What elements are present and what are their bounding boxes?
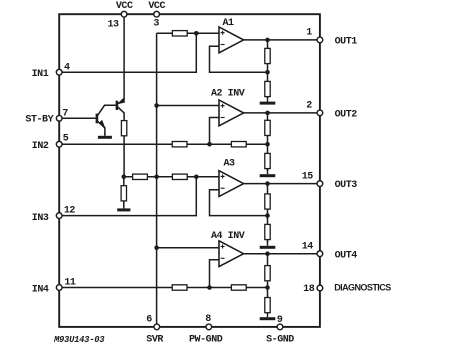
IC outline box: [59, 14, 320, 327]
op-amp A3 triangle: [219, 171, 244, 197]
svg-text:1: 1: [306, 28, 312, 39]
wire Q1 emitter: [98, 121, 105, 135]
resistor OUT1 divider lower: [265, 81, 270, 96]
transistor Q1 (NPN stand-by) base bar: [96, 114, 99, 124]
resistor OUT4 divider lower: [265, 298, 270, 313]
pin 11 IN4 terminal: [56, 285, 62, 291]
pin 6 SVR terminal: [154, 324, 160, 330]
svg-text:13: 13: [107, 20, 119, 31]
wire IN3 to A3 input junction: [62, 177, 196, 216]
ground OUT1 divider: [260, 97, 276, 104]
wire Q2 collector down to bias node: [118, 107, 124, 177]
op-amp A2 minus input mark: [221, 117, 225, 119]
svg-text:OUT1: OUT1: [335, 37, 358, 48]
node A3 input junction: [194, 175, 199, 180]
wire ST-BY to Q1 base: [62, 117, 95, 119]
wire SVR bias rail (pin 3 / pin 6 vertical): [156, 33, 158, 324]
wire A4 non-inverting bias line: [157, 247, 219, 249]
wire A4 inverting input down to IN4 line: [210, 260, 220, 288]
node bias junction: [122, 175, 127, 180]
resistor bias node to SVR rail: [133, 174, 148, 179]
svg-text:PW-GND: PW-GND: [189, 335, 223, 346]
svg-text:12: 12: [64, 206, 76, 217]
wire OUT3 from A3 to pin 15: [244, 183, 317, 185]
svg-text:OUT2: OUT2: [335, 110, 358, 121]
svg-text:VCC: VCC: [148, 1, 165, 12]
node A2 inverting input junction: [207, 142, 212, 147]
pin 3 VCC terminal: [154, 11, 160, 17]
node OUT4 divider tap: [265, 251, 270, 256]
svg-text:A3: A3: [223, 159, 235, 170]
wire A1 feedback from inverting input to divider: [210, 46, 268, 72]
op-amp A2 plus input mark: [221, 104, 225, 108]
op-amp A1 triangle: [219, 27, 244, 53]
op-amp A1 minus input mark: [221, 44, 225, 46]
node A1 feedback tap: [265, 70, 270, 75]
svg-text:2: 2: [306, 101, 312, 112]
svg-text:SVR: SVR: [146, 335, 163, 346]
resistor A3 input bias: [172, 174, 187, 179]
svg-text:7: 7: [62, 108, 68, 119]
transistor Q1 emitter arrow (NPN): [100, 121, 105, 129]
pin 14 OUT4 terminal: [317, 251, 323, 257]
wire OUT1 feedback divider chain: [267, 40, 269, 99]
ground OUT4 divider: [260, 313, 276, 319]
svg-text:OUT3: OUT3: [335, 180, 358, 191]
wire bias node to rail: [124, 176, 157, 178]
svg-text:3: 3: [153, 19, 159, 30]
wire Q2 emitter from VCC: [118, 101, 124, 104]
node A4 feedback tap: [265, 285, 270, 290]
ground OUT3 divider: [260, 240, 276, 248]
pin 12 IN3 terminal: [56, 213, 62, 219]
op-amp A2 triangle: [219, 100, 244, 126]
ground OUT2 divider: [260, 169, 276, 176]
wire VCC pin13 rail down to Q2 emitter: [123, 17, 125, 100]
svg-text:5: 5: [63, 133, 69, 144]
wire A3 feedback from inverting input to divider: [210, 190, 268, 216]
node A2 feedback tap: [265, 142, 270, 147]
pin 13 VCC terminal: [121, 11, 127, 17]
node rail to A4 bias: [154, 245, 159, 250]
node rail to A3 bias: [154, 175, 159, 180]
node A4 inverting input junction: [207, 285, 212, 290]
op-amp A3 minus input mark: [221, 187, 225, 189]
svg-text:4: 4: [64, 62, 70, 73]
pin 8 PW-GND terminal: [206, 324, 212, 330]
pin 4 IN1 terminal: [56, 69, 62, 75]
svg-text:14: 14: [302, 242, 314, 253]
transistor Q2 (PNP stand-by switch) base bar: [116, 101, 119, 110]
ground Q1 emitter: [98, 133, 112, 137]
wire IN2 line through input and feedback resistors: [62, 143, 267, 145]
resistor OUT2 divider lower: [265, 153, 270, 168]
op-amp A4 minus input mark: [221, 257, 225, 259]
resistor Q2 collector: [121, 121, 126, 136]
svg-text:IN3: IN3: [32, 213, 49, 224]
resistor A4 feedback: [231, 285, 246, 290]
wire OUT3 feedback divider chain: [267, 184, 269, 243]
svg-text:A2 INV: A2 INV: [211, 88, 245, 99]
wire IN4 line through input and feedback resistors: [62, 287, 267, 289]
pin 15 OUT3 terminal: [317, 181, 323, 187]
node A3 feedback tap: [265, 213, 270, 218]
svg-text:8: 8: [205, 314, 211, 325]
op-amp A1 plus input mark: [221, 31, 225, 35]
resistor IN2 input: [172, 142, 187, 147]
resistor OUT3 divider upper: [265, 194, 270, 209]
svg-text:18: 18: [303, 284, 315, 295]
svg-text:OUT4: OUT4: [335, 250, 358, 261]
node OUT2 divider tap: [265, 111, 270, 116]
wire A3 non-inverting input line: [157, 176, 219, 178]
svg-text:M93U143-03: M93U143-03: [53, 335, 105, 345]
svg-text:ST-BY: ST-BY: [25, 115, 53, 126]
wire A1 non-inverting input line: [157, 32, 219, 34]
svg-text:IN1: IN1: [32, 69, 49, 80]
pin 1 OUT1 terminal: [317, 37, 323, 43]
wire A2 inverting input down to IN2 line: [210, 118, 220, 145]
svg-text:S-GND: S-GND: [266, 335, 294, 346]
pin 9 S-GND terminal: [277, 324, 283, 330]
resistor OUT1 divider upper: [265, 48, 270, 63]
svg-text:VCC: VCC: [116, 1, 133, 12]
resistor OUT4 divider upper: [265, 266, 270, 281]
ground bias network: [117, 201, 130, 210]
svg-text:IN2: IN2: [32, 141, 49, 152]
wire IN1 to A1 input junction: [62, 33, 196, 72]
wire OUT4 from A4 to pin 14: [244, 253, 317, 255]
resistor OUT2 divider upper: [265, 120, 270, 135]
pin 5 IN2 terminal: [56, 141, 62, 147]
svg-text:9: 9: [277, 315, 283, 326]
resistor A2 feedback: [231, 142, 246, 147]
svg-text:DIAGNOSTICS: DIAGNOSTICS: [334, 282, 391, 292]
wire OUT2 feedback divider chain: [267, 113, 269, 171]
pin 7 ST-BY terminal: [56, 115, 62, 121]
node rail to A2 bias: [154, 103, 159, 108]
svg-text:IN4: IN4: [32, 285, 49, 296]
wire OUT4 feedback divider chain: [267, 254, 269, 314]
wire bias node to ground: [123, 177, 125, 208]
node OUT3 divider tap: [265, 181, 270, 186]
wire Q1 collector to Q2 base: [98, 105, 116, 115]
op-amp A4 triangle: [219, 241, 244, 267]
op-amp A3 plus input mark: [221, 174, 225, 178]
wire OUT2 from A2 to pin 2: [244, 112, 317, 114]
node A1 input junction: [194, 31, 199, 36]
node OUT1 divider tap: [265, 38, 270, 43]
svg-text:6: 6: [146, 315, 152, 326]
svg-text:A1: A1: [222, 18, 234, 29]
resistor A1 input bias: [172, 31, 187, 36]
svg-text:A4 INV: A4 INV: [211, 231, 245, 242]
svg-text:11: 11: [64, 278, 76, 289]
resistor IN4 input: [172, 285, 187, 290]
op-amp A4 plus input mark: [221, 245, 225, 249]
wire A2 non-inverting bias line: [157, 105, 219, 107]
pin 18 DIAGNOSTICS terminal: [317, 285, 323, 291]
resistor OUT3 divider lower: [265, 224, 270, 239]
resistor bias to ground: [121, 186, 126, 201]
pin 2 OUT2 terminal: [317, 110, 323, 116]
svg-text:15: 15: [302, 171, 314, 182]
transistor Q2 emitter arrow (PNP): [118, 99, 124, 104]
wire OUT1 from A1 to pin 1: [244, 39, 317, 41]
